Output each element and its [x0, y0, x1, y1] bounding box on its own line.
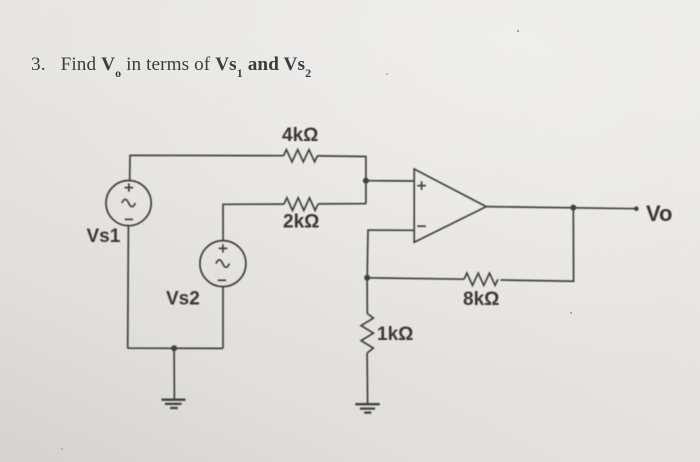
title text: [31, 54, 631, 79]
wire op-amp output to Vo terminal: [486, 207, 636, 209]
op-amp U1 triangle: [414, 169, 486, 242]
wire 8k resistor to output column: [501, 208, 574, 282]
wire node to op-amp plus input: [366, 180, 414, 182]
voltage source Vs2 circle: [200, 241, 246, 287]
ground symbol left: [162, 400, 186, 408]
svg-text:Vo: Vo: [646, 201, 672, 226]
resistor R 2k zigzag: [284, 198, 318, 211]
wire 2k resistor to node column: [318, 203, 366, 205]
wire node B to 1k resistor: [366, 278, 368, 314]
resistor R 4k zigzag: [284, 150, 318, 162]
svg-text:1kΩ: 1kΩ: [377, 324, 413, 345]
resistor R 1k vertical zigzag: [361, 314, 373, 354]
Vs2 plus sign: [219, 244, 228, 252]
wire 1k resistor to right ground: [366, 353, 369, 403]
wire Vs2 bottom down: [222, 287, 224, 349]
op-amp plus input sign: [417, 181, 426, 190]
node A junction dot: [363, 178, 369, 184]
Vs1 minus sign: [125, 218, 133, 220]
node output junction dot: [570, 205, 576, 211]
Vs1 sine symbol: [122, 199, 135, 206]
dust specks: [61, 30, 572, 450]
node ground junction dot: [171, 345, 177, 351]
wire feedback node B to 8k resistor: [367, 278, 464, 279]
resistor R 8k zigzag: [464, 273, 498, 285]
Vs1 plus sign: [125, 183, 134, 191]
ground symbol right: [355, 404, 379, 412]
terminal Vo dot: [634, 206, 639, 211]
svg-text:8kΩ: 8kΩ: [463, 289, 499, 310]
Vs2 minus sign: [218, 279, 226, 281]
Vs2 sine symbol: [216, 260, 229, 267]
wire 4k resistor to inverting node column: [318, 156, 366, 204]
wire Vs1 top to 4k resistor: [130, 155, 284, 181]
wire Vs1 bottom down: [127, 226, 130, 348]
op-amp minus input sign: [417, 225, 426, 227]
wire bottom rail Vs1 to Vs2: [128, 347, 223, 349]
wire op-amp minus input to feedback column: [367, 230, 414, 278]
svg-text:4kΩ: 4kΩ: [282, 125, 318, 146]
svg-text:Vs1: Vs1: [87, 226, 121, 247]
svg-text:2kΩ: 2kΩ: [283, 212, 319, 233]
wire Vs2 top to 2k resistor: [223, 204, 284, 241]
wire junction to left ground: [173, 348, 175, 399]
node B junction dot: [364, 275, 370, 281]
voltage source Vs1 circle: [106, 181, 151, 226]
svg-text:Vs2: Vs2: [166, 288, 200, 309]
